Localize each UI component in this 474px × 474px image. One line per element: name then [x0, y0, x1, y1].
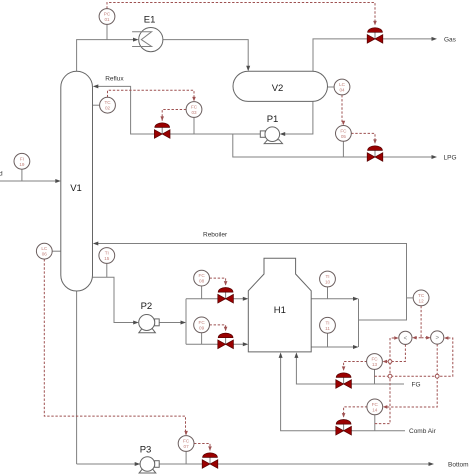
wire: TI-11 sensing tap [327, 333, 329, 347]
signal arrow into FC-07 [184, 431, 188, 436]
wire: PC-01 sensing tap [106, 24, 108, 39]
arrow into P3 [135, 462, 141, 466]
signal arrow into FC-03 [192, 97, 196, 102]
signal: FC-08 to upper pass valve [210, 278, 226, 285]
svg-text:09: 09 [199, 325, 205, 330]
svg-text:TI: TI [325, 274, 329, 279]
arrow at LPG outlet [432, 155, 438, 159]
wire: V1 bottoms down-leg [76, 291, 78, 464]
instrument FI-19 [14, 153, 30, 169]
signal: FC-03 to reflux valve [162, 110, 186, 122]
signal: high selector output to FC-14 [384, 344, 437, 407]
pump P1 [260, 127, 282, 144]
wire: TI-10 sensing tap [327, 287, 329, 299]
svg-text:H1: H1 [274, 305, 286, 316]
signal: FC-05 to LPG valve [351, 133, 375, 142]
wire: H1 upper outlet [311, 298, 355, 300]
wire: V1 bottoms draw to P2 [93, 277, 137, 322]
signal arrow into FC-13 [383, 360, 388, 364]
svg-text:14: 14 [372, 407, 378, 412]
wire: FC-05 sensing tap [342, 141, 344, 157]
svg-text:Reboiler: Reboiler [203, 231, 228, 238]
control valve on reflux line [154, 123, 170, 139]
arrow lower pass into H1 [243, 342, 249, 346]
svg-text:Bottom: Bottom [448, 461, 469, 468]
signal arrow into bottoms valve [208, 446, 212, 451]
signal: TC-12 to selectors [420, 306, 422, 338]
svg-text:07: 07 [184, 444, 190, 449]
instrument FC-05 [336, 125, 352, 141]
svg-text:PC: PC [104, 12, 111, 17]
instrument FC-09 [194, 317, 210, 333]
wire: manifold lower pass to H1 [186, 343, 246, 345]
instrument TI-15 [99, 248, 115, 264]
wire: P2 discharge to manifold [159, 322, 183, 324]
arrow into V2 [246, 66, 250, 72]
instrument FC-14 [367, 399, 383, 415]
wire: feed line into V1 [0, 180, 58, 182]
arrow feed into V1 [55, 179, 61, 183]
instrument TI-11 [320, 317, 336, 333]
instrument TC-12 [413, 290, 429, 306]
heat exchanger E1 [132, 27, 163, 51]
svg-text:05: 05 [341, 134, 347, 139]
signal: LC-06 to FC-07 [44, 259, 185, 434]
wire: FC-09 sensing tap [201, 333, 203, 345]
signal: TC-02 to FC-03 [108, 90, 195, 100]
svg-text:P3: P3 [140, 444, 152, 455]
wire: P1 discharge / reflux run [96, 86, 261, 134]
signal arrow into FC-14 [383, 405, 388, 409]
instrument FC-07 [178, 436, 194, 452]
arrow into manifold [181, 321, 187, 325]
svg-text:11: 11 [325, 326, 330, 331]
svg-text:V1: V1 [70, 183, 82, 194]
svg-text:FC: FC [371, 357, 378, 362]
wire: manifold upper pass to H1 [186, 298, 246, 300]
svg-text:E1: E1 [144, 14, 156, 25]
signal arrow into reflux valve [160, 116, 164, 121]
signal arrow into upper pass valve [224, 281, 228, 286]
signal: FC-09 to lower pass valve [210, 325, 226, 331]
junction jump: air signal over FC-13 line [388, 360, 392, 364]
signal arrow air measurement into low selector [394, 336, 399, 340]
junction jump: high selector output over FG measurement line [435, 374, 439, 378]
svg-text:06: 06 [42, 252, 48, 257]
svg-text:15: 15 [104, 256, 110, 261]
svg-text:FI: FI [20, 156, 24, 161]
control valve on bottoms line [202, 453, 218, 468]
svg-text:>: > [435, 336, 439, 342]
arrow at Gas outlet [432, 37, 438, 41]
signal arrow FG measurement into high selector [444, 336, 449, 340]
drum V2 [233, 71, 328, 101]
signal arrow into LPG valve [373, 139, 377, 144]
signal arrow into gas valve [373, 21, 377, 26]
wire: FC-13 sensing tap [374, 369, 376, 384]
high selector [431, 331, 444, 344]
arrow H1 upper outlet into header [353, 297, 359, 301]
arrow reflux into V1 [93, 84, 99, 88]
control valve on FG line [336, 373, 352, 389]
wire: FC-07 sensing tap [185, 451, 187, 464]
instrument FC-13 [367, 354, 383, 370]
arrow into E1 [133, 38, 139, 42]
svg-text:02: 02 [105, 106, 111, 111]
instrument TC-02 [100, 97, 116, 113]
svg-text:10: 10 [325, 280, 331, 285]
arrow reboiler return into V1 [93, 242, 99, 246]
signal: air flow measurement to low selector [375, 338, 397, 424]
svg-text:V2: V2 [272, 83, 284, 94]
svg-text:TI: TI [105, 251, 109, 256]
svg-text:04: 04 [339, 88, 345, 93]
svg-text:FC: FC [199, 273, 206, 278]
control valve on gas line [367, 28, 383, 44]
signal arrow into FC-05 [342, 121, 346, 126]
svg-text:12: 12 [419, 298, 425, 303]
pump P3 [139, 457, 159, 473]
signal arrow into air valve [342, 413, 346, 418]
svg-text:TC: TC [418, 293, 425, 298]
signal arrow into FG valve [342, 366, 346, 371]
svg-text:01: 01 [104, 17, 110, 22]
svg-text:FG: FG [412, 382, 421, 389]
low selector [399, 331, 412, 344]
signal: FC-07 to bottoms valve [194, 444, 210, 452]
wire: TI-15 sensing tap [106, 263, 108, 277]
control valve on H1 upper pass [218, 288, 234, 304]
signal arrow TC-12 into low selector [412, 336, 417, 340]
wire: reboiler return to V1 [96, 244, 407, 321]
signal: TC-12 branch to high selector [421, 337, 428, 339]
instrument LC-04 [334, 79, 350, 95]
svg-text:P2: P2 [141, 301, 153, 312]
svg-text:d: d [0, 170, 3, 177]
wire: V1 overhead riser [77, 40, 136, 72]
instrument PC-01 [99, 9, 115, 25]
svg-text:19: 19 [19, 162, 25, 167]
svg-text:Comb Air: Comb Air [409, 428, 437, 435]
wire: LPG product line [233, 134, 434, 157]
column V1 [61, 71, 93, 291]
svg-text:Gas: Gas [444, 36, 457, 43]
svg-text:LC: LC [41, 246, 48, 251]
wire: FC-14 sensing tap [374, 414, 376, 430]
arrow FG into H1 [294, 352, 298, 358]
arrow into P1 [280, 132, 286, 136]
svg-text:03: 03 [191, 110, 197, 115]
instrument FC-08 [194, 270, 210, 286]
signal: PC-01 to gas valve [107, 3, 375, 25]
svg-text:FC: FC [199, 320, 206, 325]
wire: V2 bottoms to P1 suction [283, 101, 313, 134]
wire: FC-08 sensing tap [201, 286, 203, 299]
wire: H1 outlet header [358, 299, 360, 347]
wire: combustion air line [281, 355, 405, 431]
svg-text:13: 13 [372, 362, 378, 367]
signal: low selector output to FC-13 [384, 344, 405, 361]
wire: LC-04 sensing tap [328, 86, 335, 88]
arrow upper pass into H1 [243, 297, 249, 301]
signal: TC-12 branch to low selector [414, 337, 421, 339]
svg-text:TC: TC [104, 100, 111, 105]
svg-text:08: 08 [199, 279, 205, 284]
wire: FG fuel gas line [296, 355, 404, 384]
signal arrow into lower pass valve [224, 327, 228, 332]
instrument TI-10 [320, 271, 336, 287]
signal arrow TC-12 into high selector [426, 336, 431, 340]
wire: H1 lower outlet [311, 346, 355, 348]
signal: FC-13 to FG valve [344, 362, 367, 371]
wire: E1 outlet to V2 inlet [163, 40, 248, 69]
signal: FC-14 to air valve [344, 407, 368, 417]
signal: LC-04 to FC-05 [341, 95, 343, 124]
pump P2 [139, 315, 160, 333]
wire: FI-19 sensing tap [21, 169, 23, 181]
wire: TC-02 sensing tap [93, 104, 100, 106]
instrument LC-06 [36, 243, 52, 259]
svg-text:FC: FC [183, 439, 190, 444]
wire: bottoms product line [77, 463, 431, 465]
svg-text:TI: TI [325, 320, 329, 325]
svg-text:FC: FC [340, 128, 347, 133]
wire: manifold header [185, 299, 187, 345]
wire: FC-03 sensing tap [193, 117, 195, 134]
control valve on H1 lower pass [218, 333, 234, 349]
svg-text:FC: FC [191, 105, 198, 110]
svg-text:<: < [404, 336, 408, 342]
junction jump: air signal over FG measurement line [388, 374, 392, 378]
svg-text:P1: P1 [267, 114, 279, 125]
instrument FC-03 [186, 102, 202, 118]
svg-text:LPG: LPG [444, 154, 457, 161]
arrow air into H1 [279, 352, 283, 358]
svg-text:FC: FC [372, 402, 379, 407]
control valve on combustion air line [336, 420, 352, 436]
furnace H1 [248, 258, 311, 352]
arrow into P2 [133, 321, 139, 325]
wire: TC-12 sensing tap [407, 297, 414, 299]
svg-text:LC: LC [339, 82, 346, 87]
control valve on LPG line [367, 146, 383, 162]
wire: V2 vapor to Gas header [313, 39, 434, 71]
svg-text:Reflux: Reflux [105, 76, 124, 83]
wire: LC-06 sensing tap [52, 250, 61, 252]
arrow H1 lower outlet into header [353, 345, 359, 349]
signal: FG flow measurement to high selector [375, 338, 453, 376]
arrow at Bottom outlet [429, 462, 435, 466]
